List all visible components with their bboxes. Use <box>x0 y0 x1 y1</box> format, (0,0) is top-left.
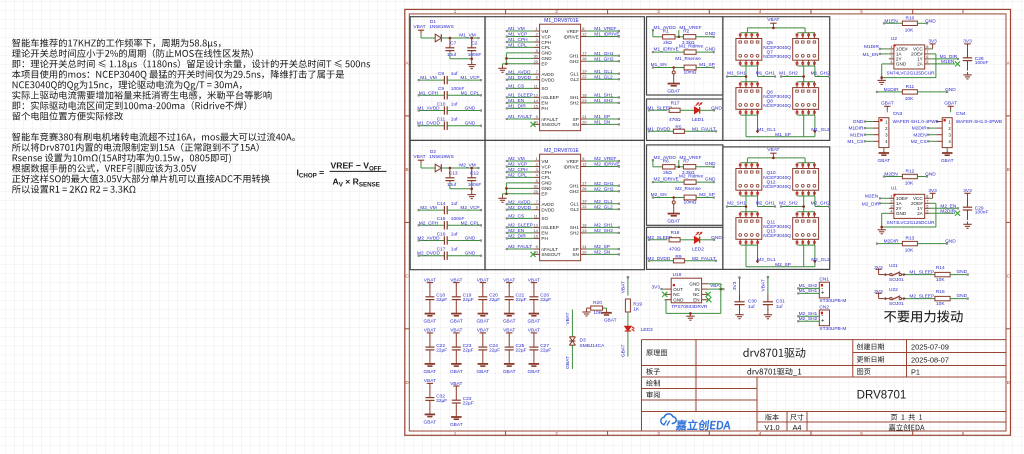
wire cap commons <box>449 52 451 59</box>
svg-text:M2EN: M2EN <box>865 194 879 200</box>
svg-text:GBAT: GBAT <box>944 101 957 107</box>
svg-text:GBAT: GBAT <box>878 158 891 164</box>
svg-text:B: B <box>1007 167 1010 172</box>
svg-text:SH1: SH1 <box>570 225 579 230</box>
section box M1 resistors <box>647 17 723 95</box>
svg-text:M1_VM: M1_VM <box>508 26 525 32</box>
svg-text:nSLEEP: nSLEEP <box>541 95 558 100</box>
wire GND pin (U2) <box>882 63 889 65</box>
svg-text:9: 9 <box>536 114 538 119</box>
svg-text:M1_EN: M1_EN <box>863 52 880 58</box>
wire net M2_GH1 <box>757 196 759 207</box>
battery ground GBAT (below CN4) <box>946 148 948 151</box>
pin NC (U18 left) <box>665 293 672 295</box>
svg-text:M1_FAULT: M1_FAULT <box>692 127 716 133</box>
svg-text:GL2: GL2 <box>570 77 579 82</box>
pin 2 1A (U2) <box>889 53 894 55</box>
pin 9 nFAULT (M2) <box>534 248 540 250</box>
pin GND (U18 right) <box>702 283 709 285</box>
wire net M1_GL1 <box>587 73 619 75</box>
svg-text:100nF: 100nF <box>468 182 482 188</box>
svg-text:M1_CS: M1_CS <box>508 84 524 90</box>
svg-text:GND: GND <box>853 119 864 125</box>
frame zone ticks left/right <box>405 115 410 117</box>
pin 6 1Y (U1) <box>925 207 930 209</box>
svg-text:R13: R13 <box>905 236 914 242</box>
svg-text:6: 6 <box>582 156 584 161</box>
pin 7 AVDD (M1) <box>534 73 540 75</box>
svg-text:5: 5 <box>536 178 538 183</box>
svg-text:M2_IDRIVE: M2_IDRIVE <box>594 162 619 168</box>
svg-text:M1_EN: M1_EN <box>508 98 525 104</box>
pin NC (U18 right) <box>702 293 709 295</box>
ground (C30) <box>739 312 741 315</box>
svg-text:GND: GND <box>711 235 722 241</box>
svg-text:GBAT: GBAT <box>621 344 627 357</box>
pin 18 SH1 (M1) <box>581 96 587 98</box>
svg-text:M2_SP: M2_SP <box>594 244 610 250</box>
svg-text:M1_CPL: M1_CPL <box>461 90 480 96</box>
svg-text:GBAT: GBAT <box>424 319 437 325</box>
wire net M1_SH2 <box>781 76 804 78</box>
resistor R7 3.3kΩ <box>675 166 683 168</box>
svg-text:22µF: 22µF <box>540 297 551 303</box>
resistor R19 1K <box>625 299 630 312</box>
pin 30 SNSOUT (M1) <box>534 123 540 125</box>
pin 5 2A (U2) <box>925 63 930 65</box>
pin 3 CPH (M1) <box>534 41 540 43</box>
svg-text:22µF: 22µF <box>436 297 447 303</box>
wire net M1_GL2 <box>587 78 619 80</box>
svg-text:M1_SLEEP: M1_SLEEP <box>508 93 533 99</box>
capacitor C20 22µF <box>482 285 484 296</box>
svg-text:GND: GND <box>705 161 716 167</box>
wire VBAT rail <box>747 27 805 29</box>
capacitor C24 22µF <box>482 336 484 347</box>
svg-text:+: + <box>821 291 825 297</box>
pin 4 CPL (M1) <box>534 46 540 48</box>
svg-text:GBAT: GBAT <box>476 319 489 325</box>
svg-text:1N5819WS: 1N5819WS <box>429 24 454 30</box>
wire mid rails <box>741 195 758 197</box>
capacitor C23 22µF <box>455 336 457 347</box>
svg-text:M1_VM: M1_VM <box>459 32 476 38</box>
svg-text:C31: C31 <box>776 298 785 304</box>
svg-text:LED2: LED2 <box>692 247 704 253</box>
svg-text:7: 7 <box>536 199 538 204</box>
wire 2OE# ground loop (U2) <box>930 53 936 55</box>
wire net M1_CPL <box>507 46 534 48</box>
section box M2 LED <box>647 227 723 269</box>
svg-text:M2_SH2: M2_SH2 <box>594 228 613 234</box>
battery ground GBAT (C24) <box>482 361 484 364</box>
svg-text:5: 5 <box>536 48 538 53</box>
svg-text:GBAT: GBAT <box>667 89 680 95</box>
capacitor C31 1uf <box>767 276 770 279</box>
pin 1 VM (M2) <box>534 160 540 162</box>
svg-text:SP: SP <box>573 117 579 122</box>
ground (C28) <box>967 72 969 75</box>
svg-text:5: 5 <box>860 431 863 436</box>
svg-text:10uf: 10uf <box>447 52 457 58</box>
wire mid rails <box>741 65 758 67</box>
svg-text:22: 22 <box>582 204 586 209</box>
svg-text:VBAT: VBAT <box>565 312 571 324</box>
svg-text:M1_SH1: M1_SH1 <box>594 93 613 99</box>
pin 17 GH1 (M1) <box>581 55 587 57</box>
svg-text:21: 21 <box>582 244 586 249</box>
svg-text:GBAT: GBAT <box>424 369 437 375</box>
pin 2 VCP (M1) <box>534 36 540 38</box>
svg-text:3: 3 <box>536 37 538 42</box>
svg-text:22µF: 22µF <box>463 297 474 303</box>
ground <box>471 192 473 195</box>
svg-text:M2_GH2: M2_GH2 <box>811 200 831 206</box>
svg-text:SO: SO <box>541 86 548 91</box>
svg-text:2025-08-07: 2025-08-07 <box>911 355 949 364</box>
svg-text:M2_FAULT: M2_FAULT <box>692 256 716 262</box>
svg-text:M2_EN: M2_EN <box>508 228 525 234</box>
pin 21 SP (M1) <box>581 118 587 120</box>
pin 12 IDRIVE (M1) <box>581 36 587 38</box>
svg-text:M1_GL2: M1_GL2 <box>594 74 613 80</box>
wire M2_VM node <box>441 167 479 169</box>
svg-text:GND: GND <box>896 62 907 67</box>
svg-text:2025-07-09: 2025-07-09 <box>911 343 949 352</box>
wire net M2DIR <box>928 127 936 129</box>
battery ground GBAT (C18) <box>429 311 431 314</box>
svg-text:WAFER-SH1.0-4PWB: WAFER-SH1.0-4PWB <box>893 119 939 124</box>
wire net M1_VM <box>507 30 534 32</box>
wire net M2_CPL <box>507 176 534 178</box>
wire net M2_SP <box>587 248 619 250</box>
svg-text:11: 11 <box>534 83 538 88</box>
svg-text:GND: GND <box>541 181 552 186</box>
pin 2 VCP (M2) <box>534 166 540 168</box>
svg-text:EN: EN <box>693 297 699 302</box>
battery ground GBAT (C20) <box>482 311 484 314</box>
svg-text:M2_DIR: M2_DIR <box>862 202 880 208</box>
svg-text:SH2: SH2 <box>570 231 579 236</box>
section box D1 power filter (M1) <box>410 17 485 141</box>
pin 13 nSLEEP (M2) <box>534 226 540 228</box>
transistor Q10 NCEP3040Q <box>736 169 762 191</box>
svg-text:VBAT: VBAT <box>413 154 425 160</box>
no-connect X (U1) <box>955 211 960 216</box>
battery ground GBAT (M2 sense) <box>673 211 675 214</box>
svg-text:M1_SN: M1_SN <box>594 120 611 126</box>
svg-text:SO: SO <box>541 216 548 221</box>
wire net M1_VCP <box>507 36 534 38</box>
svg-text:M1_GH1: M1_GH1 <box>756 70 776 76</box>
svg-text:R17: R17 <box>671 100 680 106</box>
note text block 1 <box>12 39 220 49</box>
svg-text:M2_DRV8701E: M2_DRV8701E <box>544 148 579 154</box>
svg-text:19: 19 <box>582 69 586 74</box>
svg-text:VCP: VCP <box>541 34 550 39</box>
svg-text:GBAT: GBAT <box>565 356 571 369</box>
svg-text:M1_SP: M1_SP <box>594 114 610 120</box>
battery ground GBAT (below CN3) <box>883 148 885 151</box>
wire net M2DIR <box>930 212 955 214</box>
svg-text:GND: GND <box>956 293 967 299</box>
frame zone ticks top/bottom <box>505 9 507 14</box>
svg-text:GBAT: GBAT <box>424 419 437 425</box>
pin 1 1OE# (U1) <box>889 197 894 199</box>
svg-text:CN3: CN3 <box>893 111 903 117</box>
capacitor C32 22µF <box>429 386 431 397</box>
wire net M1_DIR <box>930 58 958 60</box>
svg-text:M1_IDRIVE: M1_IDRIVE <box>594 32 619 38</box>
wire net M2_GL1 <box>587 203 619 205</box>
svg-text:GND: GND <box>956 269 967 275</box>
svg-text:SN: SN <box>572 252 578 257</box>
svg-text:SNSOUT: SNSOUT <box>541 122 560 127</box>
wire net M1_CPH <box>507 41 534 43</box>
svg-text:2: 2 <box>555 431 558 436</box>
svg-text:23: 23 <box>582 228 586 233</box>
svg-text:A4: A4 <box>792 423 801 432</box>
section box M2 resistors <box>647 145 723 225</box>
battery ground GBAT (C32) <box>429 412 431 415</box>
wire net M2_SH2 <box>798 320 819 322</box>
svg-text:10mΩ: 10mΩ <box>684 69 697 75</box>
svg-text:3: 3 <box>536 167 538 172</box>
svg-text:M1_SP: M1_SP <box>699 62 715 68</box>
ground (IC M1) <box>502 66 504 69</box>
svg-text:VCP: VCP <box>541 164 550 169</box>
svg-text:M1_SLEEP: M1_SLEEP <box>909 270 934 276</box>
pin 4 GND (U1) <box>889 212 894 214</box>
wire net M1_SH1 <box>587 96 619 98</box>
svg-text:100nF: 100nF <box>468 52 482 58</box>
svg-text:M2_VCP: M2_VCP <box>508 162 527 168</box>
svg-text:25: 25 <box>533 189 537 194</box>
transistor Q5 NCEP3040Q <box>736 39 762 61</box>
svg-text:3V3: 3V3 <box>732 281 738 290</box>
svg-text:nFAULT: nFAULT <box>541 247 558 252</box>
pin 21 SP (M2) <box>581 248 587 250</box>
svg-text:GH2: GH2 <box>569 59 579 64</box>
svg-text:NCEP3040Q: NCEP3040Q <box>763 103 791 109</box>
svg-text:GND: GND <box>896 211 907 216</box>
svg-text:22: 22 <box>582 74 586 79</box>
svg-text:22µF: 22µF <box>489 348 500 354</box>
svg-text:VM: VM <box>541 29 548 34</box>
svg-text:GBAT: GBAT <box>667 219 680 225</box>
svg-text:10K: 10K <box>936 277 945 283</box>
svg-text:10uf: 10uf <box>447 182 457 188</box>
wire net M1_DVDD <box>507 79 534 81</box>
pin 5 GND (M2) <box>534 182 540 184</box>
svg-text:10K: 10K <box>936 301 945 307</box>
transistor Q11 NCEP3040Q <box>736 218 762 240</box>
battery ground GBAT (R20) <box>606 310 608 313</box>
svg-text:1N5819WS: 1N5819WS <box>429 154 454 160</box>
svg-text:M1_SH2: M1_SH2 <box>594 98 613 104</box>
svg-text:22µF: 22µF <box>463 348 474 354</box>
no-connect X (U18 NC left) <box>662 292 667 297</box>
svg-text:C8: C8 <box>438 71 444 77</box>
svg-text:C9: C9 <box>438 86 444 92</box>
svg-text:U21: U21 <box>889 263 898 269</box>
svg-text:SOJ01: SOJ01 <box>889 277 904 283</box>
pin 14 EN (M1) <box>534 102 540 104</box>
wire net M1_SLEEP <box>902 274 907 276</box>
svg-text:OUT: OUT <box>673 287 683 292</box>
svg-text:M2_CPL: M2_CPL <box>508 173 527 179</box>
no-connect X (U18 EN) <box>706 297 711 302</box>
wire net M1_SN <box>587 123 619 125</box>
wire net M2_SH1 <box>587 226 619 228</box>
wire net M1_SP <box>587 118 619 120</box>
ground (U18) <box>689 313 691 316</box>
svg-text:9: 9 <box>536 244 538 249</box>
svg-text:10K: 10K <box>905 27 914 33</box>
wire net M2_FAULT <box>507 248 534 250</box>
svg-text:3V3: 3V3 <box>652 284 661 290</box>
svg-text:15: 15 <box>533 233 537 238</box>
svg-text:R7: R7 <box>683 159 689 165</box>
svg-text:17: 17 <box>582 51 586 56</box>
svg-text:M2_SP: M2_SP <box>775 262 791 268</box>
ground (U1) <box>881 227 883 230</box>
svg-text:1: 1 <box>536 26 538 31</box>
svg-text:1: 1 <box>536 156 538 161</box>
svg-text:GBAT: GBAT <box>528 319 541 325</box>
svg-text:GND: GND <box>541 186 552 191</box>
svg-text:M2_SLEEP: M2_SLEEP <box>508 223 533 229</box>
wire net M2_SN <box>587 253 619 255</box>
battery ground GBAT (C33) <box>455 414 457 417</box>
svg-text:M1EN: M1EN <box>941 59 955 65</box>
svg-text:M2_Ridrive: M2_Ridrive <box>679 173 704 179</box>
svg-text:19: 19 <box>582 199 586 204</box>
capacitor C18 22µF <box>429 285 431 296</box>
svg-text:10K: 10K <box>905 96 914 102</box>
svg-text:M2_GL1: M2_GL1 <box>594 199 613 205</box>
svg-text:100nF: 100nF <box>975 60 989 66</box>
capacitor C19 22µF <box>455 285 457 296</box>
svg-text:M1_SP: M1_SP <box>775 132 791 138</box>
svg-text:21: 21 <box>582 114 586 119</box>
svg-text:M1_GH2: M1_GH2 <box>594 56 614 62</box>
pin 30 GND (M1) <box>534 57 540 59</box>
title block grid <box>642 339 1007 341</box>
svg-text:M2_SLEEP: M2_SLEEP <box>909 294 934 300</box>
svg-text:V1.0: V1.0 <box>764 423 779 432</box>
svg-text:11: 11 <box>534 213 538 218</box>
wire net M2_EN <box>507 232 534 234</box>
svg-text:XT30UPB-M: XT30UPB-M <box>819 326 846 332</box>
svg-text:SNSOUT: SNSOUT <box>541 252 560 257</box>
svg-text:GBAT: GBAT <box>503 319 516 325</box>
svg-text:R2: R2 <box>683 29 689 35</box>
svg-text:nSLEEP: nSLEEP <box>541 225 558 230</box>
svg-text:M1EN: M1EN <box>850 132 864 138</box>
no-connect X (U18 NC right) <box>706 292 711 297</box>
svg-text:P1: P1 <box>911 368 920 377</box>
svg-text:6: 6 <box>962 431 965 436</box>
svg-text:1uf: 1uf <box>451 71 458 77</box>
wire net M2_DIR <box>880 202 889 204</box>
svg-text:M2_DVDD: M2_DVDD <box>417 251 440 257</box>
svg-text:7: 7 <box>536 69 538 74</box>
svg-text:GND: GND <box>945 239 956 245</box>
svg-text:M1_VM: M1_VM <box>420 75 437 81</box>
pin 4 CPL (M2) <box>534 176 540 178</box>
wire net M1_GH2 <box>814 66 816 77</box>
battery ground GBAT (C26) <box>533 311 535 314</box>
capacitor C33 22µF <box>455 389 457 400</box>
svg-text:18: 18 <box>582 92 586 97</box>
wire net M2_SLEEP <box>902 298 907 300</box>
title block values <box>743 348 805 358</box>
wire net M2_SH2 <box>781 206 804 208</box>
section box M2_DRV8701E <box>485 140 644 269</box>
svg-text:VBAT: VBAT <box>767 147 779 153</box>
svg-text:EN: EN <box>541 101 547 106</box>
svg-text:M1_CPL: M1_CPL <box>508 43 527 49</box>
svg-text:IN: IN <box>695 287 700 292</box>
svg-text:R11: R11 <box>906 84 915 90</box>
svg-text:GND: GND <box>705 176 716 182</box>
svg-text:M1_CS: M1_CS <box>847 139 863 145</box>
svg-text:4: 4 <box>759 431 762 436</box>
svg-text:GBAT: GBAT <box>941 158 954 164</box>
wire net M1_SH1 <box>727 76 746 78</box>
svg-text:M1_AVDD: M1_AVDD <box>417 106 440 112</box>
svg-text:GBAT: GBAT <box>450 422 463 428</box>
transistor Q6 NCEP3040Q <box>736 88 762 110</box>
section box D2 power filter (M2) <box>410 140 485 269</box>
formula I_CHOP = (VREF - V_OFF) / (A_V x R_SENSE) <box>297 161 382 189</box>
pin 15 PH (M2) <box>534 237 540 239</box>
drawing frame outer border <box>405 9 1011 435</box>
svg-text:GND: GND <box>925 172 936 178</box>
svg-text:2kΩ: 2kΩ <box>663 170 672 176</box>
pin 5 2A (U1) <box>925 212 930 214</box>
svg-text:GND: GND <box>465 251 476 257</box>
svg-text:AVDD: AVDD <box>541 202 554 207</box>
svg-text:GBAT: GBAT <box>604 317 617 323</box>
svg-text:3: 3 <box>657 9 660 14</box>
pin 3 2Y (U1) <box>889 207 894 209</box>
svg-text:2: 2 <box>536 162 538 167</box>
svg-text:GND: GND <box>465 106 476 112</box>
svg-text:CPH: CPH <box>541 170 551 175</box>
svg-text:M1_CPH: M1_CPH <box>508 37 528 43</box>
svg-text:U18: U18 <box>673 272 682 278</box>
pin 30 SNSOUT (M2) <box>534 253 540 255</box>
svg-text:10K: 10K <box>905 181 914 187</box>
svg-text:R15: R15 <box>936 289 945 295</box>
svg-text:1: 1 <box>454 431 457 436</box>
wire net M2_GL2 <box>814 245 816 267</box>
svg-text:M2_GL1: M2_GL1 <box>757 257 776 263</box>
ground (C29) <box>967 222 969 225</box>
ground (R20) <box>587 307 591 309</box>
LED LED1 <box>680 109 694 111</box>
svg-text:VBAT: VBAT <box>621 281 627 293</box>
svg-text:NCEP3040Q: NCEP3040Q <box>763 233 791 239</box>
capacitor C28 100nF <box>967 47 969 57</box>
wire net GND <box>865 121 873 123</box>
svg-text:VBAT: VBAT <box>760 279 766 291</box>
wire net M2_GH2 <box>587 190 619 192</box>
wire net M2_CS <box>507 217 534 219</box>
svg-text:AVDD: AVDD <box>541 72 554 77</box>
